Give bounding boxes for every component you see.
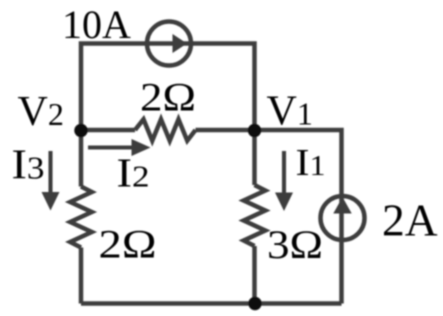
current arrow I2 (88, 145, 133, 149)
svg-text:2Ω: 2Ω (140, 75, 196, 120)
current source 10A circle (147, 22, 191, 66)
svg-text:I3: I3 (12, 143, 45, 189)
svg-text:10A: 10A (62, 2, 131, 47)
wire right branch through 2A source (255, 130, 342, 304)
current source 10A arrow head (173, 34, 188, 53)
svg-text:I1: I1 (296, 142, 326, 184)
svg-text:I2: I2 (117, 150, 150, 196)
current arrow I3 (48, 151, 52, 194)
current source 2A circle (321, 196, 365, 240)
svg-text:V1: V1 (267, 89, 313, 135)
resistor R left 2Ohm branch wire (V2 down to bottom) (79, 130, 84, 187)
current source 2A arrow head (333, 197, 351, 214)
svg-text:V2: V2 (18, 89, 64, 135)
wire middle branch with resistor 2Ohm horizontal (81, 128, 135, 133)
resistor 3Ohm branch wire (V1 down to bottom node) (252, 130, 257, 185)
svg-text:2A: 2A (382, 195, 438, 246)
wire bottom (81, 301, 342, 306)
svg-text:2Ω: 2Ω (99, 222, 157, 267)
node bottom dot (248, 297, 261, 310)
node V2 dot (74, 124, 87, 137)
wire top loop: V2 up, across top, down to V1 (81, 44, 255, 132)
svg-text:3Ω: 3Ω (267, 222, 323, 267)
node V1 dot (248, 124, 261, 137)
current arrow I1 (282, 151, 286, 194)
